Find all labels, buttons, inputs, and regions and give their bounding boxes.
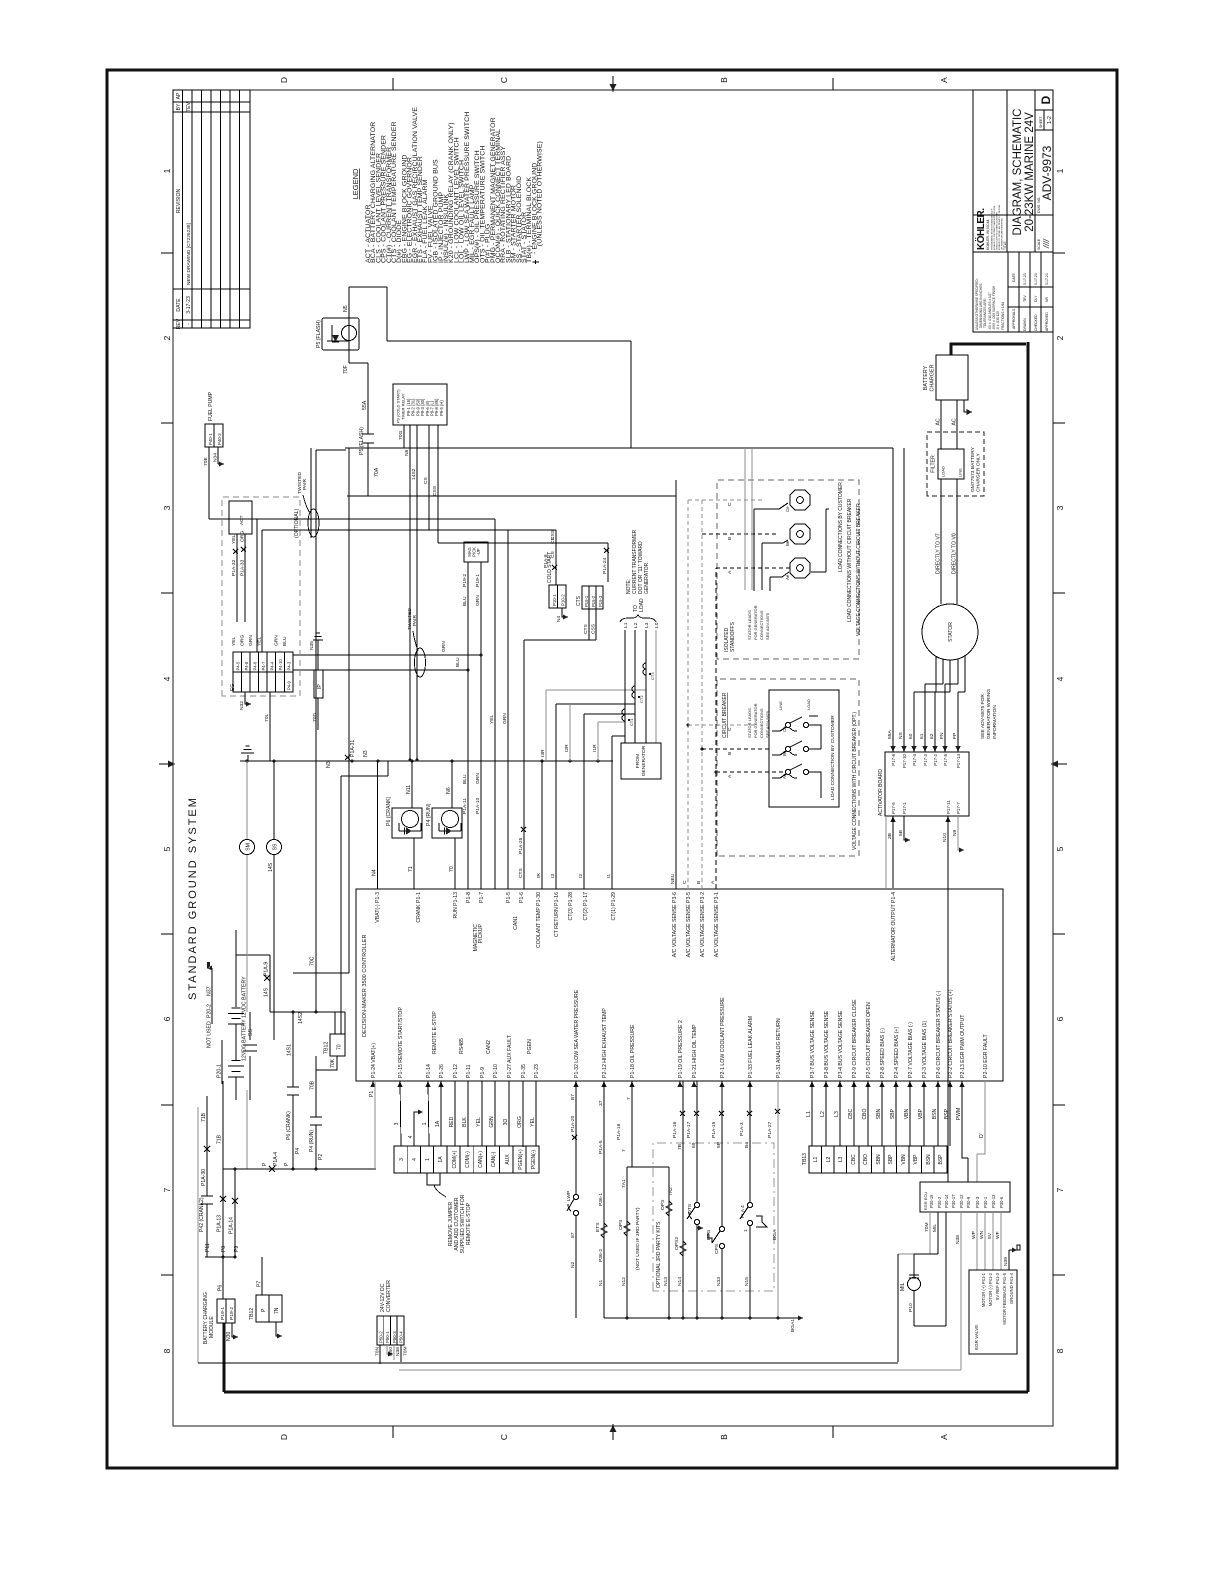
svg-text:GRN: GRN bbox=[274, 635, 280, 646]
circuit breaker (dashed box) bbox=[688, 679, 859, 856]
svg-text:3O: 3O bbox=[503, 1119, 509, 1126]
svg-text:7N: 7N bbox=[274, 1307, 280, 1314]
svg-text:VBP: VBP bbox=[918, 1108, 924, 1119]
svg-text:(NOT USED IF 3RD PARTY): (NOT USED IF 3RD PARTY) bbox=[635, 1207, 641, 1270]
svg-text:L0: L0 bbox=[654, 622, 660, 628]
svg-text:P1A-33: P1A-33 bbox=[240, 559, 246, 576]
svg-text:P20-1: P20-1 bbox=[217, 1064, 223, 1078]
connector strip P1 (3/4/1/1A/COM/CAN/AUX/PGEN) bbox=[394, 1146, 539, 1253]
svg-text:(UNLESS NOTED OTHERWISE): (UNLESS NOTED OTHERWISE) bbox=[537, 141, 544, 246]
pin arrows into left edge bbox=[370, 1081, 964, 1087]
svg-text:REMOTE E-STOP: REMOTE E-STOP bbox=[432, 1011, 438, 1054]
svg-text:N13: N13 bbox=[663, 1277, 669, 1286]
svg-text:MIL: MIL bbox=[900, 1282, 906, 1291]
svg-text:CSS: CSS bbox=[550, 529, 556, 540]
svg-text:1: 1 bbox=[162, 168, 172, 173]
svg-text:N30: N30 bbox=[226, 1331, 232, 1341]
svg-text:70N: 70N bbox=[375, 1347, 381, 1356]
terminal block TB12 (70) bbox=[316, 1034, 345, 1070]
svg-text:I3: I3 bbox=[550, 874, 556, 878]
svg-text:A/C VOLTAGE SENSE P3-6: A/C VOLTAGE SENSE P3-6 bbox=[672, 892, 678, 957]
svg-text:PGEN: PGEN bbox=[527, 1039, 533, 1054]
svg-text:TEV: TEV bbox=[186, 101, 192, 112]
svg-text:SBN: SBN bbox=[876, 1108, 882, 1119]
svg-text:DATE: DATE bbox=[1012, 272, 1016, 282]
svg-text:PGEN(-): PGEN(-) bbox=[531, 1150, 537, 1170]
svg-text:P3-8 BUS VOLTAGE SENSE: P3-8 BUS VOLTAGE SENSE bbox=[824, 1010, 830, 1078]
svg-text:3-17-23: 3-17-23 bbox=[1034, 273, 1038, 285]
coolant temp sender connector CTS bbox=[438, 529, 609, 640]
svg-text:70: 70 bbox=[449, 866, 455, 872]
svg-text:P3-4 BUS VOLTAGE SENSE: P3-4 BUS VOLTAGE SENSE bbox=[838, 1010, 844, 1078]
svg-text:VBP: VBP bbox=[913, 1154, 919, 1165]
svg-text:CAN(-): CAN(-) bbox=[491, 1151, 497, 1167]
svg-text:D: D bbox=[279, 1434, 289, 1440]
wire P1 grey bbox=[369, 1081, 375, 1169]
CT3 bbox=[643, 663, 646, 675]
svg-text:GM77573 BATTERY: GM77573 BATTERY bbox=[970, 446, 976, 492]
svg-text:P30-3: P30-3 bbox=[975, 1196, 980, 1208]
svg-text:P17-7: P17-7 bbox=[956, 802, 961, 814]
svg-text:SBN: SBN bbox=[876, 1154, 882, 1165]
svg-text:P1-23: P1-23 bbox=[534, 1064, 540, 1078]
svg-text:P4-10: P4-10 bbox=[278, 659, 283, 671]
svg-text:STATOR LEADS: STATOR LEADS bbox=[747, 610, 752, 640]
svg-text:OPS: OPS bbox=[660, 1199, 666, 1210]
svg-text:71B: 71B bbox=[201, 1112, 207, 1122]
svg-text:GRN: GRN bbox=[502, 713, 508, 724]
svg-text:P2-6 CIRCUIT BREAKER STATUS (-: P2-6 CIRCUIT BREAKER STATUS (-) bbox=[936, 990, 942, 1078]
svg-text:FLA 4: FLA 4 bbox=[740, 1205, 746, 1218]
svg-text:37: 37 bbox=[598, 1100, 604, 1106]
MIL lamp bbox=[900, 1275, 946, 1326]
svg-text:B: B bbox=[727, 537, 733, 540]
svg-text:ORG: ORG bbox=[240, 635, 246, 646]
svg-text:A: A bbox=[727, 570, 733, 574]
svg-text:P1-8: P1-8 bbox=[466, 892, 472, 903]
svg-text:VBN: VBN bbox=[904, 1108, 910, 1119]
svg-text:P2-8 SPEED BIAS (-): P2-8 SPEED BIAS (-) bbox=[880, 1028, 886, 1078]
svg-text:GENERATOR.: GENERATOR. bbox=[644, 561, 650, 594]
svg-text:P15-3: P15-3 bbox=[598, 595, 603, 607]
LWP switch on B7 wire bbox=[566, 1081, 579, 1318]
svg-text:EGR VALVE: EGR VALVE bbox=[974, 1325, 979, 1350]
svg-text:P1A-31: P1A-31 bbox=[350, 740, 356, 757]
svg-text:TB12: TB12 bbox=[324, 1042, 330, 1054]
svg-text:8: 8 bbox=[162, 1348, 172, 1353]
svg-text:REMOTE E-STOP: REMOTE E-STOP bbox=[466, 1202, 472, 1245]
svg-text:P1A-20: P1A-20 bbox=[570, 1115, 576, 1132]
svg-text:1: 1 bbox=[425, 1158, 431, 1161]
svg-text:CSS: CSS bbox=[591, 623, 597, 634]
title block bbox=[973, 90, 1054, 332]
CPS wire 5P bbox=[708, 1081, 725, 1318]
svg-text:P50-2: P50-2 bbox=[378, 1331, 383, 1343]
top area long wires bbox=[257, 448, 676, 973]
svg-text:70K: 70K bbox=[330, 1058, 336, 1068]
activator board bbox=[878, 448, 998, 1182]
svg-text:3: 3 bbox=[1055, 505, 1065, 510]
svg-text:MIL: MIL bbox=[932, 1224, 938, 1232]
svg-text:P1-32 LOW SEA WATER PRESSURE: P1-32 LOW SEA WATER PRESSURE bbox=[574, 989, 580, 1078]
svg-text:Ce: Ce bbox=[785, 506, 790, 512]
svg-text:62: 62 bbox=[929, 733, 935, 739]
svg-text:1: 1 bbox=[422, 1122, 428, 1125]
svg-text:REV: REV bbox=[176, 318, 182, 329]
svg-text:CONNECTIONS: CONNECTIONS bbox=[759, 610, 764, 640]
svg-text:P1: P1 bbox=[369, 1091, 375, 1097]
battery 12VDC #1 bbox=[228, 930, 244, 1100]
svg-text:GENERATOR: GENERATOR bbox=[641, 745, 647, 776]
svg-text:P30-1: P30-1 bbox=[983, 1196, 988, 1208]
svg-text:P: P bbox=[284, 1162, 290, 1166]
svg-text:P17-3: P17-3 bbox=[923, 753, 928, 765]
svg-text:87: 87 bbox=[570, 1232, 576, 1238]
svg-text:5P: 5P bbox=[716, 1142, 722, 1148]
svg-text:70: 70 bbox=[337, 1044, 343, 1050]
svg-text:A/C VOLTAGE SENSE P3-1: A/C VOLTAGE SENSE P3-1 bbox=[714, 892, 720, 957]
svg-text:YEL: YEL bbox=[231, 534, 237, 544]
svg-text:BSN: BSN bbox=[932, 1108, 938, 1119]
svg-text:3: 3 bbox=[399, 1158, 405, 1161]
svg-text:CT(3) P1-28: CT(3) P1-28 bbox=[568, 892, 574, 921]
svg-text:AC: AC bbox=[936, 418, 942, 425]
svg-text:P7: P7 bbox=[257, 1281, 263, 1287]
svg-text:.X ± .030 125: .X ± .030 125 bbox=[996, 311, 1000, 330]
thick charger/ground bus bbox=[224, 342, 1028, 1392]
svg-text:BLK: BLK bbox=[462, 1117, 468, 1127]
svg-text:P1-19 OIL PRESSURE 2: P1-19 OIL PRESSURE 2 bbox=[678, 1020, 684, 1078]
svg-text:4: 4 bbox=[408, 1135, 414, 1138]
svg-text:////: //// bbox=[1042, 238, 1051, 249]
svg-text:70A: 70A bbox=[374, 467, 380, 477]
svg-text:I2R: I2R bbox=[564, 744, 570, 752]
svg-text:SM: SM bbox=[246, 843, 252, 851]
svg-text:AP: AP bbox=[176, 92, 182, 99]
svg-text:CS: CS bbox=[423, 476, 429, 484]
svg-text:KOHLER, WI 53044: KOHLER, WI 53044 bbox=[986, 220, 990, 250]
svg-text:P17-10: P17-10 bbox=[902, 753, 907, 768]
svg-text:CBC: CBC bbox=[848, 1108, 854, 1119]
bottom long buses bbox=[198, 1363, 961, 1370]
svg-text:P4 (RUN): P4 (RUN) bbox=[426, 803, 432, 826]
svg-text:SEE ADV-5875: SEE ADV-5875 bbox=[765, 612, 770, 640]
EG connector grid bbox=[233, 652, 293, 692]
stator leads from octagons bbox=[754, 503, 788, 591]
svg-text:P10-1: P10-1 bbox=[552, 594, 557, 606]
OPS wire 7 bbox=[616, 1081, 641, 1318]
FLA wire B4 bbox=[739, 1081, 767, 1318]
svg-text:PWM: PWM bbox=[956, 1108, 962, 1120]
svg-text:P4-3: P4-3 bbox=[287, 661, 292, 671]
svg-text:STANDARD GROUND SYSTEM: STANDARD GROUND SYSTEM bbox=[187, 796, 199, 1000]
svg-text:SBP: SBP bbox=[888, 1154, 894, 1165]
svg-text:N12: N12 bbox=[621, 1277, 627, 1286]
svg-text:CT2: CT2 bbox=[639, 695, 644, 703]
svg-text:GRN: GRN bbox=[489, 1116, 495, 1128]
svg-text:B: B bbox=[719, 77, 729, 83]
svg-text:Ce: Ce bbox=[782, 726, 787, 732]
svg-text:70C: 70C bbox=[310, 956, 316, 966]
svg-text:CT(1) P1-29: CT(1) P1-29 bbox=[611, 892, 617, 921]
svg-text:5V: 5V bbox=[987, 1232, 993, 1239]
svg-text:MOTOR FEEDBACK P41-5: MOTOR FEEDBACK P41-5 bbox=[1002, 1272, 1007, 1324]
revision table bbox=[173, 90, 250, 329]
svg-text:70B: 70B bbox=[310, 1080, 316, 1090]
svg-text:P4 (RUN): P4 (RUN) bbox=[309, 1130, 315, 1152]
svg-text:CBO: CBO bbox=[863, 1154, 869, 1165]
svg-text:N32: N32 bbox=[239, 701, 245, 710]
svg-text:N8: N8 bbox=[404, 449, 410, 456]
svg-text:P36-1: P36-1 bbox=[598, 1193, 604, 1206]
svg-text:VOLTAGE CONNECTIONS WITH CIRCU: VOLTAGE CONNECTIONS WITH CIRCUIT BREAKER… bbox=[852, 712, 858, 850]
svg-text:IR: IR bbox=[536, 873, 542, 878]
svg-text:TOLERANCES ARE:: TOLERANCES ARE: bbox=[983, 298, 987, 328]
svg-text:6: 6 bbox=[1055, 1016, 1065, 1021]
svg-text:P: P bbox=[262, 1162, 268, 1166]
svg-text:P1-35: P1-35 bbox=[521, 1064, 527, 1078]
svg-text:P42 (CRANK2): P42 (CRANK2) bbox=[199, 1197, 205, 1232]
contacts bbox=[785, 717, 808, 778]
cold start timer relay P9 bbox=[393, 384, 447, 760]
wire CTS to controller P1-30 bbox=[518, 640, 526, 889]
svg-text:DLY: DLY bbox=[1034, 295, 1038, 302]
svg-text:D: D bbox=[1039, 95, 1053, 104]
svg-text:EGR ECU: EGR ECU bbox=[923, 1192, 928, 1210]
svg-text:YEL: YEL bbox=[489, 714, 495, 724]
svg-text:RED: RED bbox=[449, 1116, 455, 1127]
svg-text:N35: N35 bbox=[309, 641, 315, 650]
svg-text:LOAD: LOAD bbox=[806, 699, 811, 710]
svg-text:5V REF P41-3: 5V REF P41-3 bbox=[995, 1272, 1000, 1300]
svg-text:CTS: CTS bbox=[583, 623, 589, 634]
svg-text:CIRCUIT BREAKER: CIRCUIT BREAKER bbox=[722, 692, 728, 738]
svg-text:3-17-23: 3-17-23 bbox=[186, 296, 192, 314]
svg-text:A: A bbox=[710, 880, 716, 884]
svg-text:DRAWN: DRAWN bbox=[1023, 318, 1027, 331]
svg-text:BGA1: BGA1 bbox=[790, 1319, 796, 1332]
svg-text:ORG: ORG bbox=[517, 1116, 523, 1128]
fuse P6 (CRANK) wire 14S1 bbox=[286, 1012, 301, 1169]
svg-text:P30-14: P30-14 bbox=[944, 1194, 949, 1208]
svg-text:P17-8: P17-8 bbox=[891, 753, 896, 765]
svg-text:RUN P1-13: RUN P1-13 bbox=[453, 892, 459, 919]
svg-text:P1A-27: P1A-27 bbox=[767, 1121, 773, 1138]
svg-text:B7: B7 bbox=[570, 1094, 576, 1100]
svg-text:FOR GENERATOR: FOR GENERATOR bbox=[753, 605, 758, 640]
svg-text:P4-6: P4-6 bbox=[253, 661, 258, 671]
svg-text:CHECKED: CHECKED bbox=[1034, 314, 1038, 331]
EGR valve bbox=[969, 1245, 1020, 1354]
svg-text:N15: N15 bbox=[744, 1277, 750, 1286]
svg-text:1: 1 bbox=[743, 1229, 749, 1232]
svg-text:P1-24 VBAT(+): P1-24 VBAT(+) bbox=[371, 1043, 377, 1078]
twisted pair upper bbox=[297, 448, 319, 538]
svg-text:P17-6: P17-6 bbox=[891, 802, 896, 814]
svg-text:P1-31 ANALOG RETURN: P1-31 ANALOG RETURN bbox=[776, 1018, 782, 1078]
svg-text:P17-1: P17-1 bbox=[902, 802, 907, 814]
svg-text:71B: 71B bbox=[217, 1134, 223, 1144]
horn bbox=[756, 1216, 767, 1227]
svg-text:-: - bbox=[186, 323, 192, 325]
svg-text:55A: 55A bbox=[362, 400, 368, 410]
wires into EG grid (CAN1 pair) bbox=[257, 519, 262, 652]
svg-text:ADV-9973: ADV-9973 bbox=[1040, 145, 1054, 200]
voltage connections without circuit breaker (dashed box) bbox=[688, 448, 862, 659]
tolerance fine print bbox=[975, 278, 1005, 330]
svg-text:1A: 1A bbox=[435, 1120, 441, 1127]
svg-text:7B: 7B bbox=[677, 1144, 683, 1150]
svg-text:P1A-4: P1A-4 bbox=[273, 1152, 279, 1166]
svg-text:70G: 70G bbox=[398, 431, 404, 440]
twisted pair ellipse bbox=[415, 648, 426, 677]
svg-text:P2: P2 bbox=[318, 1154, 324, 1160]
svg-text:Ae: Ae bbox=[782, 773, 787, 779]
svg-text:P17-4: P17-4 bbox=[912, 753, 917, 765]
svg-text:PAIR: PAIR bbox=[302, 478, 308, 490]
svg-text:A: A bbox=[939, 77, 949, 83]
svg-text:LOAD CONNECTIONS BY CUSTOMER: LOAD CONNECTIONS BY CUSTOMER bbox=[838, 482, 844, 572]
wire EGR FAULT P2-10 grey bbox=[977, 1081, 985, 1182]
svg-text:GRN: GRN bbox=[475, 595, 481, 606]
CT1 bbox=[622, 709, 625, 721]
svg-text:D: D bbox=[279, 77, 289, 83]
svg-text:BLU: BLU bbox=[462, 774, 468, 784]
svg-text:P1A-11: P1A-11 bbox=[462, 798, 468, 814]
wire P9 bbox=[229, 1169, 239, 1257]
svg-text:P1-21 HIGH OIL TEMP: P1-21 HIGH OIL TEMP bbox=[692, 1024, 698, 1078]
svg-text:FN: FN bbox=[939, 732, 945, 739]
ground bus for kits bbox=[604, 1317, 803, 1319]
svg-text:N5: N5 bbox=[343, 305, 349, 312]
flash lamp P5 bbox=[316, 287, 893, 496]
svg-text:COOLANT TEMP P1-30: COOLANT TEMP P1-30 bbox=[536, 892, 542, 948]
relay P4 (RUN) bbox=[426, 761, 462, 889]
svg-text:P10-2: P10-2 bbox=[561, 594, 566, 606]
dashed drops A/B/C bbox=[702, 534, 790, 568]
svg-text:5: 5 bbox=[1055, 846, 1065, 851]
svg-text:C: C bbox=[682, 880, 688, 884]
svg-text:CBC: CBC bbox=[851, 1154, 857, 1165]
svg-text:AUX: AUX bbox=[505, 1154, 511, 1165]
svg-text:PGEN(+): PGEN(+) bbox=[518, 1149, 524, 1170]
svg-text:P1A-10: P1A-10 bbox=[475, 797, 481, 814]
breaker drops bbox=[702, 749, 785, 772]
svg-text:P1A-8: P1A-8 bbox=[543, 554, 549, 568]
starter solenoid contact SS bbox=[243, 1012, 257, 1100]
svg-text:SBP: SBP bbox=[890, 1108, 896, 1119]
terminal block TB12 (P / 7N) bbox=[249, 1257, 282, 1339]
wires controller to TB13 bbox=[812, 1081, 950, 1146]
svg-text:NOT USED: NOT USED bbox=[207, 1021, 213, 1048]
svg-text:I1R: I1R bbox=[592, 744, 598, 752]
svg-text:2: 2 bbox=[1055, 335, 1065, 340]
EG grounds bbox=[245, 692, 251, 704]
svg-text:LOAD: LOAD bbox=[639, 598, 645, 612]
svg-text:N1: N1 bbox=[598, 1279, 604, 1286]
svg-text:P50-3: P50-3 bbox=[392, 1331, 397, 1343]
svg-text:N11: N11 bbox=[406, 785, 412, 794]
svg-text:P1-9: P1-9 bbox=[480, 1067, 486, 1078]
svg-text:P30-6: P30-6 bbox=[999, 1196, 1004, 1208]
charger ground bbox=[964, 400, 972, 412]
not used tap P20-2 / N37 bbox=[207, 962, 223, 1084]
svg-text:14S2: 14S2 bbox=[411, 468, 417, 480]
svg-text:P50-1: P50-1 bbox=[385, 1331, 390, 1343]
svg-text:FUEL PUMP: FUEL PUMP bbox=[208, 391, 214, 421]
svg-text:OPTIONAL 3RD PARTY KITS: OPTIONAL 3RD PARTY KITS bbox=[656, 1221, 662, 1288]
svg-text:P5 (FLASH): P5 (FLASH) bbox=[359, 427, 365, 455]
svg-text:BSN: BSN bbox=[926, 1154, 932, 1165]
svg-text:P1-12: P1-12 bbox=[453, 1064, 459, 1078]
stator bbox=[922, 479, 978, 660]
svg-text:LINE: LINE bbox=[778, 701, 783, 710]
svg-text:DECISION-MAKER 3500 CONTROLLER: DECISION-MAKER 3500 CONTROLLER bbox=[362, 934, 368, 1037]
svg-text:LEGEND: LEGEND bbox=[351, 168, 360, 199]
wire PWM P2-13 to EGR ECU bbox=[962, 1081, 968, 1182]
OPS2 wire 7B bbox=[672, 1081, 686, 1318]
svg-text:AC: AC bbox=[952, 418, 958, 425]
svg-text:B: B bbox=[719, 1434, 729, 1440]
svg-text:N10: N10 bbox=[942, 833, 948, 842]
svg-text:CTS: CTS bbox=[576, 595, 582, 606]
svg-text:P15-2: P15-2 bbox=[591, 595, 596, 607]
svg-text:GRN: GRN bbox=[441, 641, 447, 652]
svg-text:7: 7 bbox=[1055, 1187, 1065, 1192]
svg-text:P2-7 VOLTAGE BIAS (-): P2-7 VOLTAGE BIAS (-) bbox=[908, 1022, 914, 1078]
svg-text:P2-13 EGR PWM OUTPUT: P2-13 EGR PWM OUTPUT bbox=[960, 1014, 966, 1078]
svg-text:P2-9 CIRCUIT BREAKER CLOSE: P2-9 CIRCUIT BREAKER CLOSE bbox=[852, 999, 858, 1078]
svg-text:7: 7 bbox=[162, 1187, 172, 1192]
see adv note bbox=[980, 689, 998, 739]
P11/P8/P9 junction bus bbox=[205, 1243, 240, 1258]
svg-text:ACTIVATOR BOARD: ACTIVATOR BOARD bbox=[878, 769, 884, 816]
svg-text:P1-27 AUX FAULT: P1-27 AUX FAULT bbox=[507, 1034, 513, 1078]
svg-text:FP: FP bbox=[952, 733, 958, 739]
svg-text:CONVERTER: CONVERTER bbox=[386, 1280, 392, 1312]
svg-text:7: 7 bbox=[621, 1149, 627, 1152]
svg-text:P1A-17: P1A-17 bbox=[686, 1121, 692, 1138]
svg-text:P2-10 EGR FAULT: P2-10 EGR FAULT bbox=[983, 1033, 989, 1078]
zone numbers bbox=[162, 168, 1065, 1353]
svg-text:YEL: YEL bbox=[530, 1117, 536, 1127]
remote e-stop jumper bbox=[427, 1173, 440, 1185]
CT note bbox=[626, 529, 650, 594]
svg-text:GRN: GRN bbox=[248, 635, 254, 646]
right-side wires to stator bbox=[892, 448, 894, 752]
svg-text:P8: P8 bbox=[221, 1246, 227, 1252]
centerline arrows bbox=[168, 84, 1058, 1432]
electronic governor EG (dashed) bbox=[222, 497, 300, 761]
svg-text:Be: Be bbox=[782, 750, 787, 756]
svg-text:STANDOFFS: STANDOFFS bbox=[730, 621, 736, 652]
P feed bus bbox=[223, 1152, 376, 1172]
svg-text:A/C VOLTAGE SENSE P3-2: A/C VOLTAGE SENSE P3-2 bbox=[700, 892, 706, 957]
NEU / C / B / A nets bbox=[670, 480, 718, 889]
svg-text:P30-9: P30-9 bbox=[966, 1196, 971, 1208]
svg-text:FILTER: FILTER bbox=[931, 455, 937, 473]
svg-text:P1A-9: P1A-9 bbox=[264, 962, 270, 976]
svg-text:INFORMATION: INFORMATION bbox=[992, 705, 998, 739]
battery charging module bbox=[203, 1257, 238, 1344]
svg-text:P6: P6 bbox=[218, 1285, 224, 1291]
IGB ground bus N3 bbox=[240, 740, 613, 768]
svg-text:LINE: LINE bbox=[958, 468, 963, 477]
svg-text:LOAD: LOAD bbox=[941, 466, 946, 477]
CT secondary wires IR/I1/I2/I3 bbox=[536, 690, 646, 889]
svg-text:B4: B4 bbox=[744, 1142, 750, 1148]
svg-text:55A: 55A bbox=[887, 730, 893, 739]
